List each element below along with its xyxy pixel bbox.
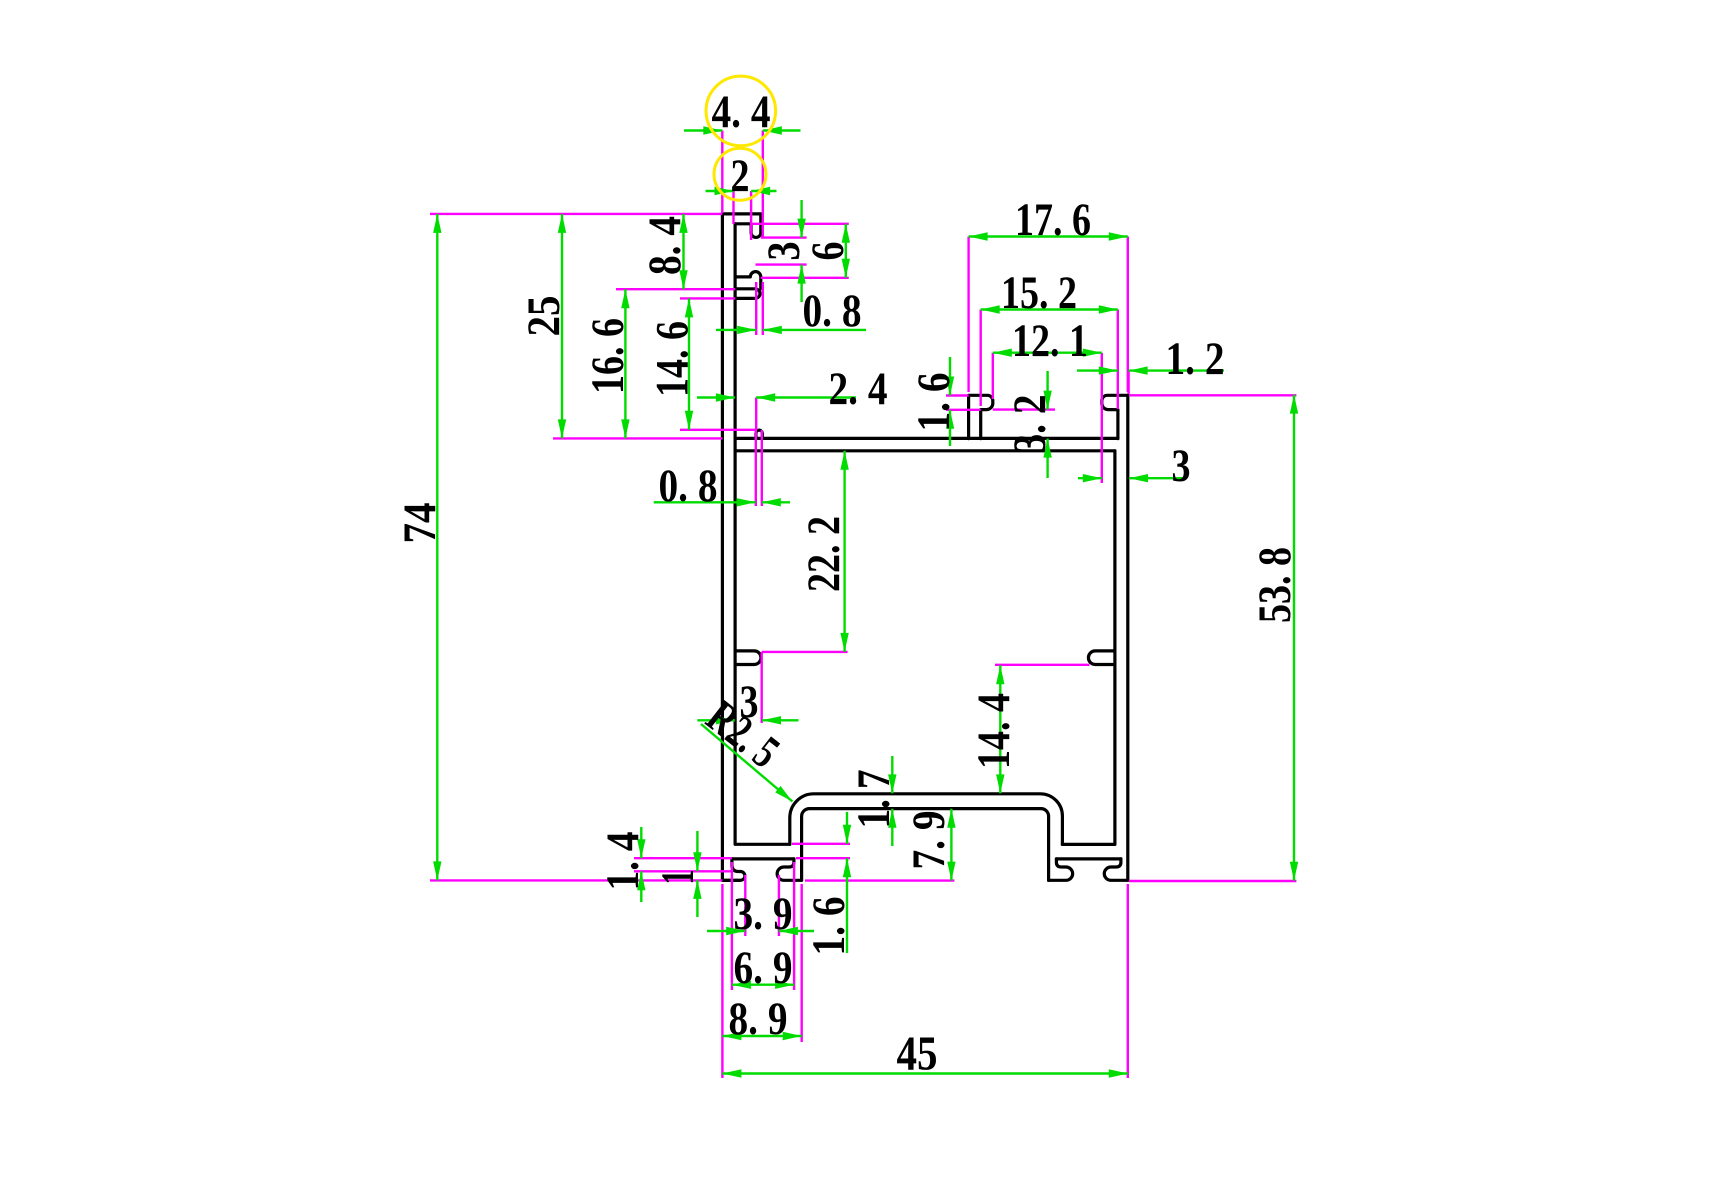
- svg-text:22. 2: 22. 2: [798, 516, 850, 592]
- svg-text:53. 8: 53. 8: [1249, 547, 1301, 623]
- svg-text:7. 9: 7. 9: [903, 811, 955, 870]
- svg-text:16. 6: 16. 6: [582, 318, 634, 394]
- svg-text:6: 6: [802, 242, 854, 261]
- svg-text:74: 74: [394, 503, 446, 544]
- svg-text:14. 6: 14. 6: [646, 321, 698, 397]
- svg-text:15. 2: 15. 2: [1001, 267, 1077, 319]
- svg-text:25: 25: [518, 296, 570, 337]
- svg-text:1. 7: 1. 7: [848, 770, 900, 829]
- svg-text:3: 3: [1172, 440, 1191, 492]
- svg-text:8. 4: 8. 4: [639, 216, 691, 275]
- svg-text:1. 6: 1. 6: [803, 897, 855, 956]
- svg-text:1. 6: 1. 6: [908, 373, 960, 432]
- svg-text:12. 1: 12. 1: [1012, 315, 1088, 367]
- svg-text:45: 45: [897, 1025, 938, 1080]
- svg-text:1: 1: [652, 870, 704, 885]
- svg-text:2: 2: [731, 150, 750, 202]
- svg-text:4. 4: 4. 4: [712, 86, 771, 138]
- svg-text:3. 9: 3. 9: [734, 888, 793, 940]
- svg-text:2. 4: 2. 4: [829, 363, 888, 415]
- svg-text:3. 2: 3. 2: [1004, 395, 1056, 454]
- svg-text:6. 9: 6. 9: [734, 942, 793, 994]
- svg-text:17. 6: 17. 6: [1015, 194, 1091, 246]
- svg-text:1. 2: 1. 2: [1166, 333, 1225, 385]
- svg-text:0. 8: 0. 8: [803, 285, 862, 337]
- svg-text:R2. 5: R2. 5: [697, 691, 789, 779]
- svg-text:0. 8: 0. 8: [659, 460, 718, 512]
- svg-text:1. 4: 1. 4: [597, 832, 649, 891]
- svg-text:14. 4: 14. 4: [968, 693, 1020, 769]
- svg-text:8. 9: 8. 9: [729, 993, 788, 1045]
